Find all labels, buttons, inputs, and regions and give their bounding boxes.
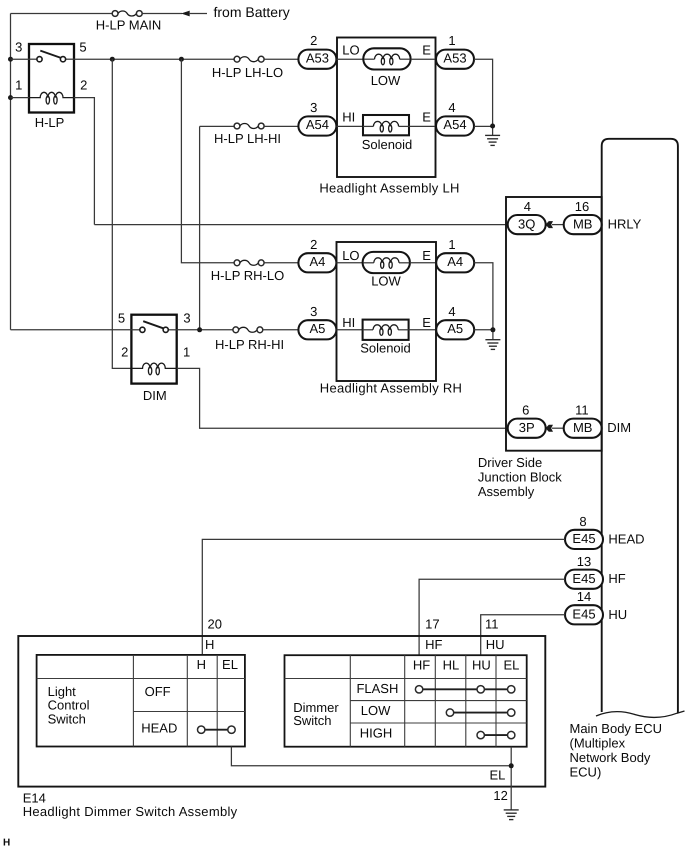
svg-text:DIM: DIM <box>143 388 167 403</box>
wire HRLY row to 3Q <box>94 224 507 226</box>
switch contacts FLASH row HF-HU-EL <box>415 686 515 693</box>
svg-text:8: 8 <box>579 514 586 529</box>
svg-text:E45: E45 <box>572 531 595 546</box>
wire A53 to lamp <box>336 58 363 60</box>
svg-text:4: 4 <box>524 199 531 214</box>
svg-text:Switch: Switch <box>293 713 331 728</box>
wire vertical RH-LO feed <box>181 59 234 263</box>
svg-text:1: 1 <box>448 237 455 252</box>
connector E45 HF <box>565 570 603 589</box>
svg-text:3Q: 3Q <box>518 216 535 231</box>
svg-text:2: 2 <box>310 33 317 48</box>
connector A5 left pin 3 <box>298 304 336 339</box>
wire fuse to arrow <box>142 13 182 15</box>
wire fuse to A4 left <box>264 262 299 264</box>
svg-text:11: 11 <box>485 617 499 632</box>
svg-text:E: E <box>422 248 431 263</box>
wire fuse to A54 left <box>264 125 299 127</box>
connector A53 right pin 1 <box>436 33 474 69</box>
svg-text:LOW: LOW <box>361 703 391 718</box>
wire LH-HI branch <box>199 126 201 329</box>
arrow MB to 3Q <box>546 221 564 228</box>
svg-text:A54: A54 <box>443 117 466 132</box>
wire relay pin 5 to fuse <box>74 58 234 60</box>
svg-text:16: 16 <box>575 199 589 214</box>
svg-text:HI: HI <box>342 315 355 330</box>
fuse H-LP LH-HI <box>234 123 264 129</box>
svg-text:H-LP MAIN: H-LP MAIN <box>96 18 162 33</box>
node junction EL bus <box>509 763 514 768</box>
connector 3P <box>508 419 546 438</box>
ECU torn edge wave <box>596 711 685 717</box>
svg-text:EL: EL <box>222 657 238 672</box>
node junction RH-LO feed <box>179 57 184 62</box>
svg-text:17: 17 <box>425 617 439 632</box>
wire HF row <box>419 579 565 655</box>
lamp LOW LH <box>363 48 410 69</box>
arrow from battery <box>181 11 207 17</box>
svg-text:Headlight Assembly LH: Headlight Assembly LH <box>319 180 459 195</box>
wire A53 right to ground drop <box>474 59 493 135</box>
headlight assembly RH box <box>337 242 437 381</box>
node junction high beam bus <box>197 327 202 332</box>
svg-text:4: 4 <box>448 100 455 115</box>
wire relay pin 2 to vertical <box>74 98 94 225</box>
svg-text:E: E <box>422 110 431 125</box>
node junction left bus at relay pin 3 <box>8 57 13 62</box>
svg-text:Main Body ECU: Main Body ECU <box>570 721 662 736</box>
svg-text:DIM: DIM <box>607 420 631 435</box>
svg-text:3: 3 <box>310 100 317 115</box>
svg-text:HRLY: HRLY <box>608 217 642 232</box>
switch contacts HIGH row HU-EL <box>477 731 515 738</box>
svg-text:HU: HU <box>608 607 627 622</box>
svg-text:20: 20 <box>208 617 222 632</box>
svg-text:Headlight Dimmer Switch Assemb: Headlight Dimmer Switch Assembly <box>23 804 238 819</box>
wire LH-HI fuse row <box>200 125 235 127</box>
wire relay pin 3 stub <box>11 58 30 60</box>
svg-text:OFF: OFF <box>145 684 171 699</box>
svg-text:Switch: Switch <box>48 711 86 726</box>
svg-text:E: E <box>422 43 431 58</box>
fuse H-LP MAIN <box>112 11 142 17</box>
junction block box <box>506 197 602 451</box>
wire A4 to lamp <box>336 262 362 264</box>
wire A4 right to ground drop <box>474 263 493 340</box>
wire solenoid to A54 right <box>409 125 436 127</box>
label Main Body ECU <box>570 721 662 780</box>
wire vertical DIM coil feed <box>112 59 131 368</box>
coil H-LP relay <box>29 92 74 104</box>
ground RH <box>485 340 500 350</box>
wire A54 right to ground node <box>474 125 493 127</box>
wire LCS EL down <box>231 747 511 766</box>
switch contacts H-LP relay <box>29 51 74 62</box>
node junction DIM coil feed <box>110 57 115 62</box>
svg-text:LO: LO <box>342 43 359 58</box>
svg-text:HF: HF <box>413 657 430 672</box>
connector E45 HEAD <box>565 530 603 549</box>
svg-text:MB: MB <box>573 216 593 231</box>
wire dimmer EL down to ground <box>510 747 512 810</box>
svg-text:Solenoid: Solenoid <box>362 137 413 152</box>
svg-text:HIGH: HIGH <box>360 726 393 741</box>
svg-text:Driver Side: Driver Side <box>478 455 542 470</box>
svg-text:1: 1 <box>15 78 22 93</box>
svg-text:A54: A54 <box>306 117 329 132</box>
arrow MB to 3P <box>546 425 564 432</box>
svg-text:4: 4 <box>448 304 455 319</box>
wire left bus to DIM pin 5 <box>11 329 132 331</box>
label Light Control Switch <box>48 684 90 726</box>
svg-text:A53: A53 <box>443 50 466 65</box>
solenoid RH <box>363 320 409 340</box>
connector A4 right pin 1 <box>436 237 474 272</box>
wire HEAD row <box>202 539 565 655</box>
svg-text:A4: A4 <box>447 254 463 269</box>
node junction LH ground <box>490 124 495 129</box>
svg-text:5: 5 <box>118 311 125 326</box>
svg-text:13: 13 <box>577 554 591 569</box>
wire lamp to A4 right <box>410 262 436 264</box>
svg-text:EL: EL <box>490 767 506 782</box>
svg-text:HL: HL <box>443 657 460 672</box>
ground EL <box>504 810 519 820</box>
svg-text:HU: HU <box>472 657 491 672</box>
node junction RH ground <box>490 327 495 332</box>
svg-text:H-LP RH-HI: H-LP RH-HI <box>215 337 284 352</box>
svg-text:Solenoid: Solenoid <box>360 341 411 356</box>
svg-text:HF: HF <box>425 637 442 652</box>
connector 3Q <box>508 215 546 234</box>
fuse H-LP RH-LO <box>234 260 264 266</box>
wire left bus vertical <box>10 14 12 330</box>
svg-text:from Battery: from Battery <box>214 4 290 20</box>
svg-text:Assembly: Assembly <box>478 484 535 499</box>
connector A53 left pin 2 <box>298 33 336 69</box>
wire lamp to A53 right <box>411 58 436 60</box>
svg-text:HEAD: HEAD <box>608 532 644 547</box>
svg-text:H: H <box>3 838 10 849</box>
wire A5 right to ground node <box>474 329 493 331</box>
svg-text:Headlight Assembly RH: Headlight Assembly RH <box>320 381 462 396</box>
label Dimmer Switch <box>293 700 339 728</box>
svg-text:11: 11 <box>575 403 589 418</box>
wire fuse to A53 left <box>264 58 299 60</box>
headlight assembly LH box <box>337 38 436 178</box>
svg-text:H: H <box>205 637 214 652</box>
switch contacts LOW row HL-EL <box>446 709 515 716</box>
connector A5 right pin 4 <box>436 304 474 339</box>
label Driver Side Junction Block Assembly <box>478 455 562 499</box>
connector MB DIM <box>564 419 602 438</box>
wire fuse to A5 left <box>263 329 299 331</box>
wire solenoid to A5 right <box>409 329 437 331</box>
svg-text:H-LP LH-HI: H-LP LH-HI <box>214 131 281 146</box>
connector A54 left pin 3 <box>298 100 336 136</box>
svg-text:3P: 3P <box>519 420 535 435</box>
svg-text:E45: E45 <box>572 571 595 586</box>
fuse H-LP LH-LO <box>234 56 264 62</box>
svg-text:5: 5 <box>79 40 86 55</box>
solenoid LH <box>363 115 409 135</box>
wire battery feed top horizontal <box>11 13 113 15</box>
svg-text:E45: E45 <box>572 607 595 622</box>
svg-text:2: 2 <box>80 78 87 93</box>
connector A4 left pin 2 <box>298 237 336 272</box>
switch contacts DIM relay <box>131 321 176 332</box>
svg-text:1: 1 <box>448 33 455 48</box>
fuse H-LP RH-HI <box>233 327 263 333</box>
svg-text:2: 2 <box>310 237 317 252</box>
dimmer switch table <box>285 655 527 747</box>
svg-text:ECU): ECU) <box>570 765 602 780</box>
connector E45 HU <box>565 605 603 624</box>
relay H-LP box <box>29 44 74 113</box>
svg-text:A4: A4 <box>309 254 325 269</box>
switch contacts HEAD row H-EL <box>198 726 236 733</box>
svg-text:(Multiplex: (Multiplex <box>570 736 626 751</box>
main body ECU box <box>602 139 678 713</box>
connector A54 right pin 4 <box>436 100 474 136</box>
switch assembly outer box <box>18 636 545 787</box>
wire DIM pin 3 to fuse RH-HI <box>177 329 233 331</box>
svg-text:HF: HF <box>608 571 625 586</box>
svg-text:LO: LO <box>342 248 359 263</box>
wire HU row <box>481 615 565 655</box>
svg-text:Network Body: Network Body <box>570 750 651 765</box>
svg-text:12: 12 <box>493 788 507 803</box>
light control switch table <box>37 655 245 747</box>
svg-text:A5: A5 <box>309 321 325 336</box>
ground LH <box>485 135 500 145</box>
wire A5 to solenoid <box>336 329 362 331</box>
svg-text:HU: HU <box>486 637 505 652</box>
svg-text:Junction Block: Junction Block <box>478 470 562 485</box>
svg-text:A53: A53 <box>306 50 329 65</box>
svg-text:3: 3 <box>15 40 22 55</box>
svg-text:6: 6 <box>522 403 529 418</box>
wire A54 to solenoid <box>336 125 363 127</box>
svg-text:FLASH: FLASH <box>356 681 398 696</box>
lamp LOW RH <box>363 252 410 273</box>
wire relay pin 1 stub <box>11 97 30 99</box>
svg-text:1: 1 <box>183 344 190 359</box>
svg-text:H-LP LH-LO: H-LP LH-LO <box>212 65 283 80</box>
svg-text:HEAD: HEAD <box>141 721 177 736</box>
node junction left bus at relay pin 1 <box>8 95 13 100</box>
connector MB HRLY <box>564 215 602 234</box>
svg-text:E: E <box>422 315 431 330</box>
svg-text:LOW: LOW <box>371 274 401 289</box>
svg-text:3: 3 <box>310 304 317 319</box>
wire DIM pin 1 to 3P row <box>177 368 508 428</box>
svg-text:H-LP RH-LO: H-LP RH-LO <box>211 268 284 283</box>
svg-text:A5: A5 <box>447 321 463 336</box>
svg-text:14: 14 <box>577 589 591 604</box>
svg-text:H: H <box>197 657 206 672</box>
svg-text:2: 2 <box>121 344 128 359</box>
svg-text:EL: EL <box>503 657 519 672</box>
svg-text:H-LP: H-LP <box>35 115 65 130</box>
svg-text:HI: HI <box>342 110 355 125</box>
svg-text:LOW: LOW <box>371 73 401 88</box>
svg-text:MB: MB <box>573 420 593 435</box>
relay DIM box <box>131 315 176 384</box>
svg-text:3: 3 <box>183 311 190 326</box>
coil DIM relay <box>131 363 176 375</box>
